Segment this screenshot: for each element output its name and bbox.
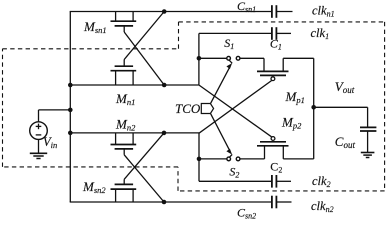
ground (Cout) [361,153,375,158]
TCO arrow to S2 [211,114,230,150]
junction Mn2 right [162,131,167,136]
transistor Msn2 [111,179,137,202]
svg-text:Cout: Cout [335,134,356,150]
switch S2 lever [229,154,232,157]
svg-text:clk1: clk1 [311,26,330,41]
wire Mn2 gate cross to bottom rail [124,155,164,202]
wire Mp1 gate cross to node S2 [199,81,272,134]
svg-text:Mp2: Mp2 [281,115,302,131]
wire C1 to clk1 [276,32,291,34]
capacitor C1 [272,27,277,40]
wire Mp1 drain to Vout rail [283,57,314,59]
TCO box [201,104,213,114]
ground (Vin) [30,153,47,158]
junction Vout [311,105,316,110]
transistor Mp2 [257,137,289,159]
wire Mn1 row [70,84,199,86]
capacitor C2 row wire [199,180,271,182]
wire left rail [69,12,71,203]
wire Mn1 gate cross to top rail [124,12,164,60]
wire Vout rail [313,58,315,159]
svg-text:Vin: Vin [43,135,57,150]
node S2 vertical upper [198,133,200,159]
wire Mn2 row [70,132,199,134]
wire top rail [70,11,272,13]
junction node S2 [197,157,202,162]
junction bottom rail [162,200,167,205]
junction Mn1 right [162,83,167,88]
svg-text:S2: S2 [229,164,239,179]
svg-text:S1: S1 [224,36,234,51]
node S2 vertical lower [198,159,200,181]
svg-text:Mn1: Mn1 [115,91,135,107]
wire C2 to clk2 [276,180,291,182]
wire Msn1 gate cross to Mn1 drain [124,32,164,85]
arrowhead S1 [226,63,232,69]
switch S2 [199,157,265,161]
svg-text:TCO: TCO [175,101,201,116]
junction Vin [68,108,73,113]
svg-text:Vout: Vout [335,79,355,95]
switch S1 [199,56,264,60]
svg-text:Csn1: Csn1 [237,0,256,14]
arrowhead S2 [226,149,232,155]
wire Csn1 to clkn1 [276,11,292,13]
transistor Msn1 [111,12,137,33]
wire Msn2 gate cross to Mn2 drain [124,133,164,179]
capacitor C1 row wire [199,32,271,34]
switch S1 lever [229,60,232,63]
svg-text:Msn2: Msn2 [82,179,106,195]
capacitor Cout [360,127,376,131]
TCO arrow to S1 [211,68,230,103]
wire Mp2 drain to Vout rail [283,158,313,160]
transistor Mn1 [111,60,137,86]
capacitor Csn2 [272,196,277,209]
wire bottom rail [70,201,272,203]
transistor Mp1 [257,58,289,80]
svg-text:Mn2: Mn2 [115,117,136,133]
svg-text:Msn1: Msn1 [83,19,107,35]
node S1 vertical [198,33,200,85]
svg-text:C2: C2 [270,159,282,174]
junction node S1 [197,56,202,61]
capacitor C2 [272,175,277,188]
junction top rail [162,9,167,14]
capacitor Csn1 [272,5,277,18]
wire Mp2 gate cross to node S1 [199,85,272,137]
svg-text:clk2: clk2 [312,174,331,189]
dashed clock boundary [3,22,385,191]
svg-text:clkn1: clkn1 [312,4,335,19]
wire Csn2 to clkn2 [276,201,291,203]
junction Mn2 left [68,131,73,136]
junction Mn1 left [68,83,73,88]
svg-text:C1: C1 [270,37,282,52]
svg-text:Csn2: Csn2 [237,206,256,221]
svg-text:clkn2: clkn2 [311,199,334,214]
wire Vout to Cout [314,106,368,108]
svg-text:Mp1: Mp1 [285,89,305,105]
voltage source Vin [30,110,71,153]
transistor Mn2 [111,133,137,155]
